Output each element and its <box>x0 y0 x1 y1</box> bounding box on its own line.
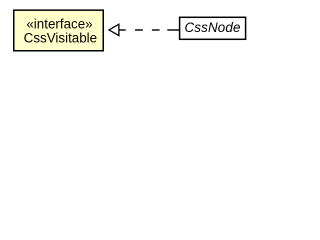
dashed realization line segment 1 <box>119 29 126 31</box>
svg-text:CssNode: CssNode <box>184 20 240 35</box>
svg-text:«interface»: «interface» <box>26 16 92 31</box>
dashed realization line segment 4 <box>167 29 179 31</box>
background <box>0 0 264 61</box>
svg-text:CssVisitable: CssVisitable <box>24 30 97 45</box>
hollow triangle arrowhead pointing at CssVisitable <box>109 24 119 35</box>
class name label CssVisitable <box>24 30 97 45</box>
class box CssNode <box>180 17 246 39</box>
class name label CssNode (italic = abstract) <box>184 20 240 35</box>
dashed realization line segment 3 <box>152 29 160 31</box>
interface class box CssVisitable <box>14 10 104 51</box>
stereotype label «interface» <box>26 16 92 31</box>
dashed realization line segment 2 <box>135 29 143 31</box>
